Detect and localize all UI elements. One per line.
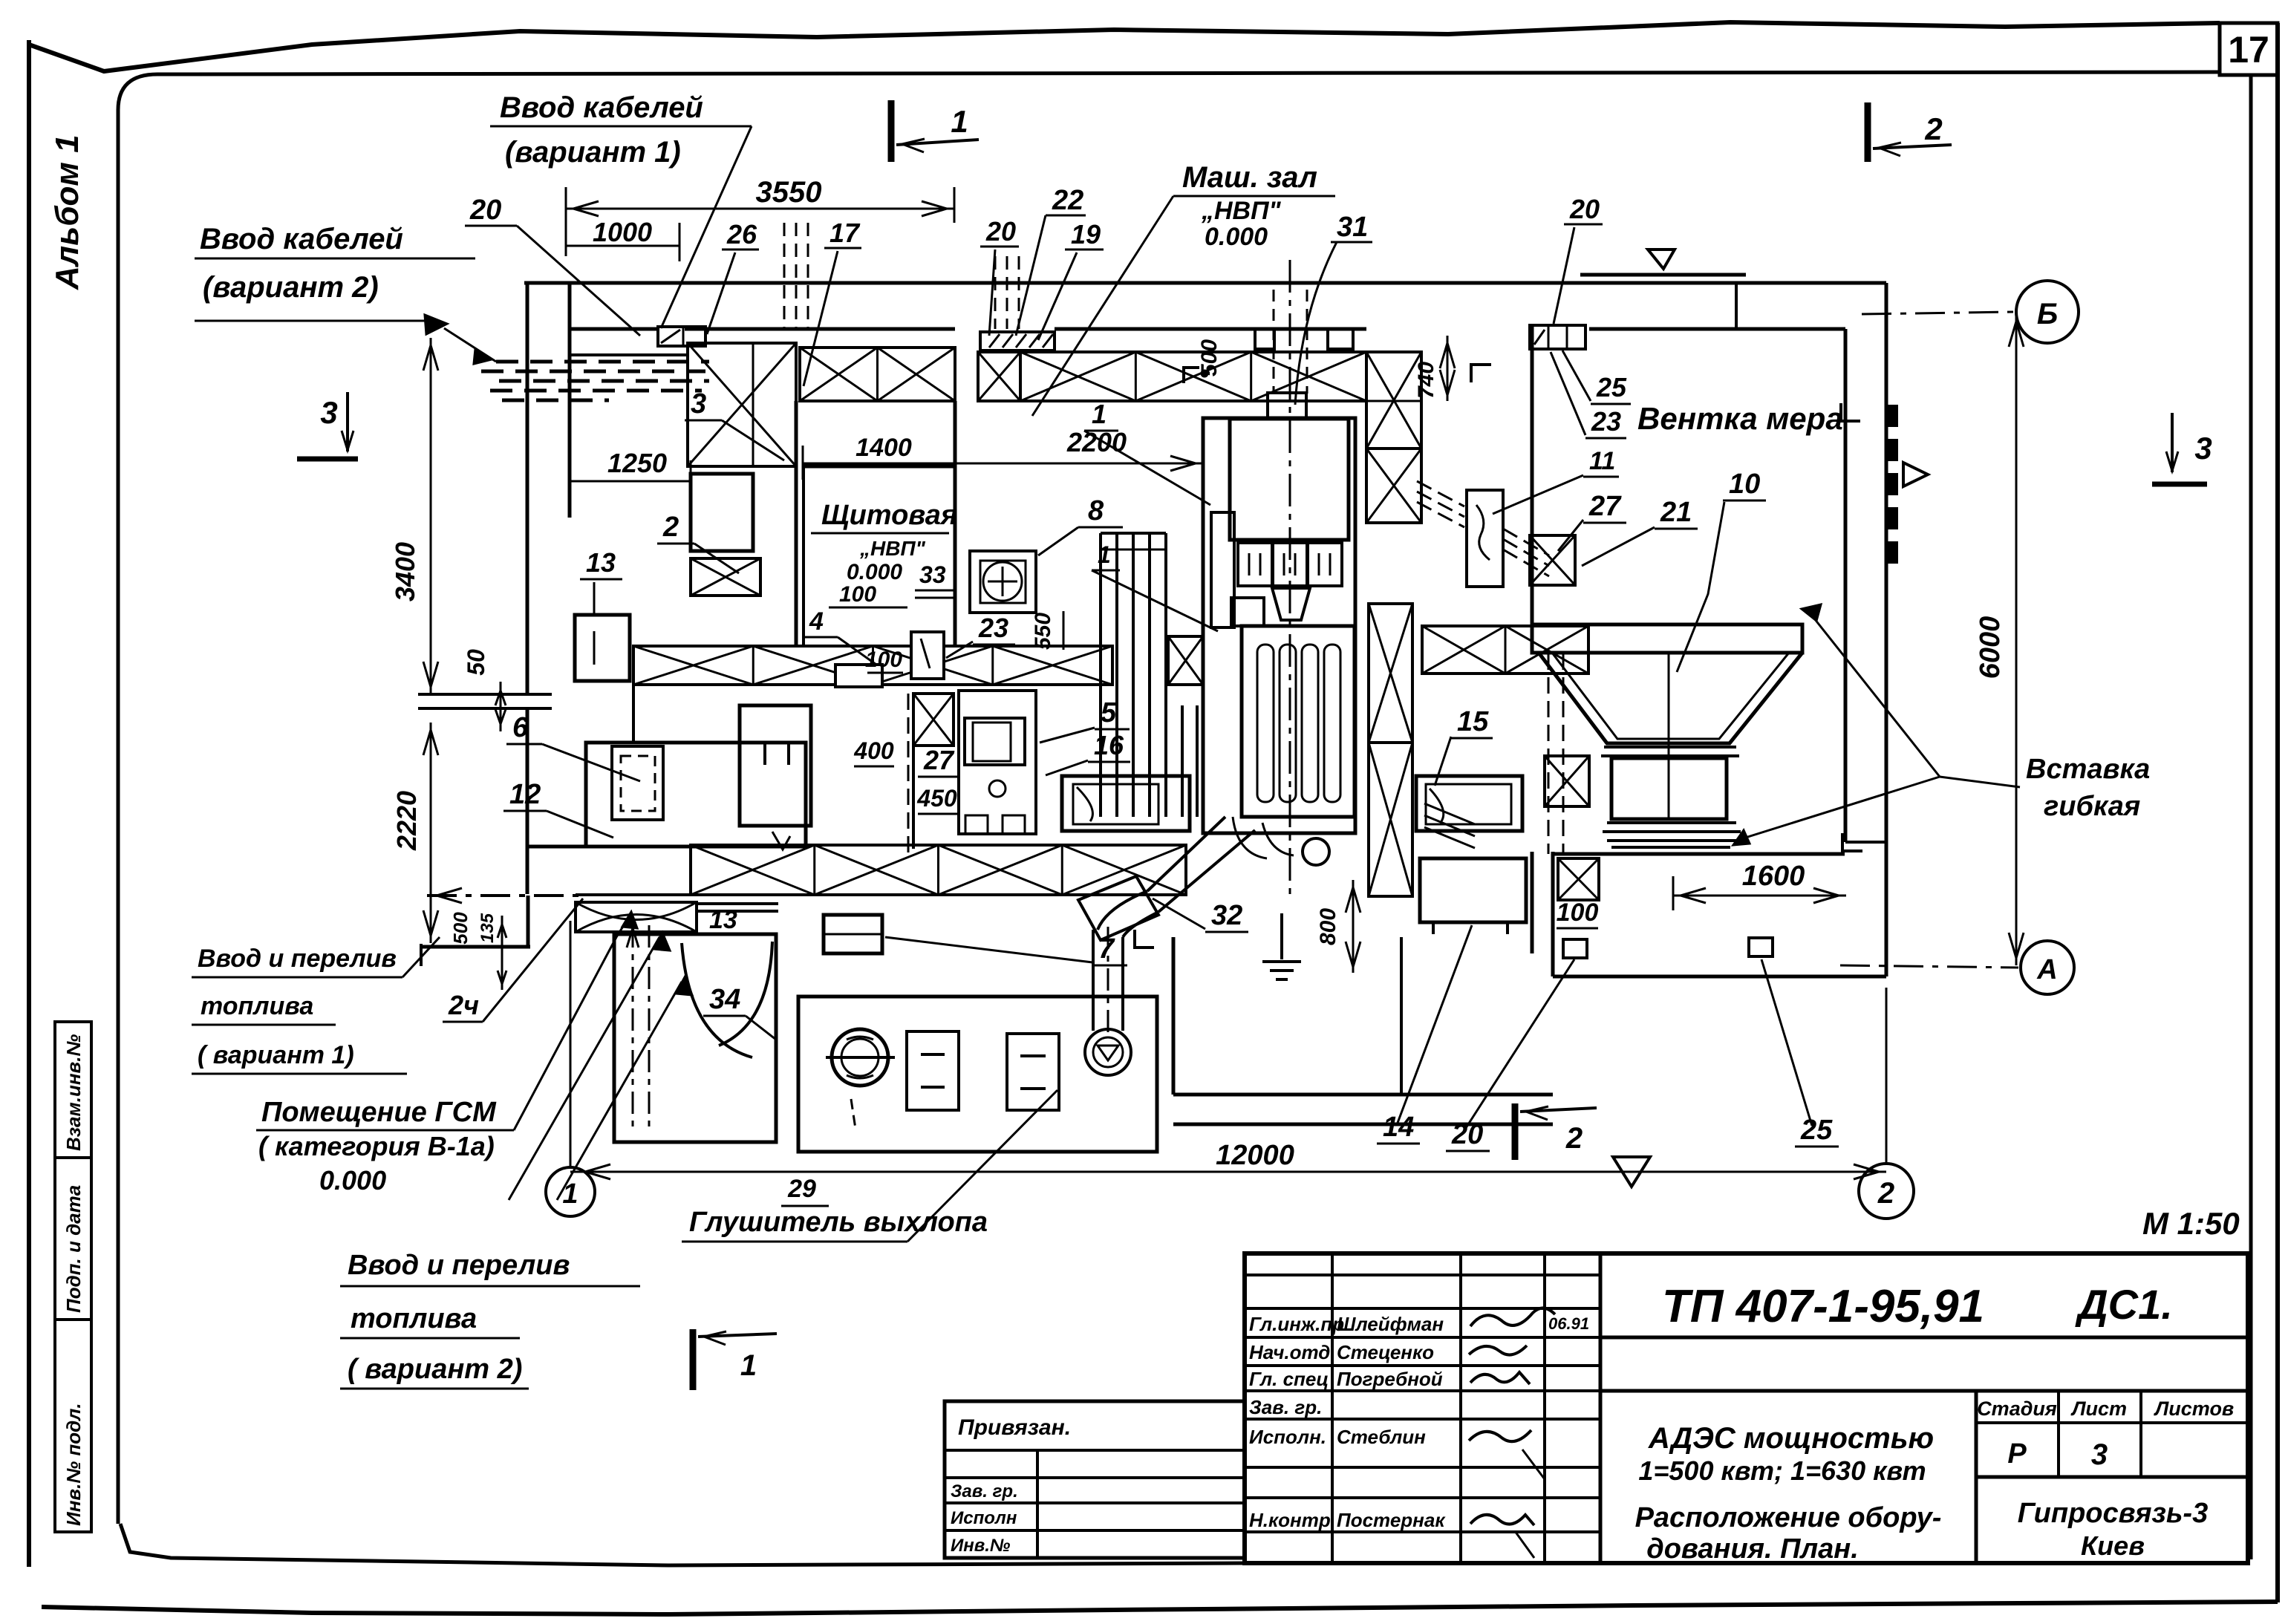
svg-text:21: 21 xyxy=(1660,497,1692,528)
inner frame bottom xyxy=(120,1524,1245,1565)
dim 740 xyxy=(1447,336,1449,401)
GSM room walls xyxy=(614,934,776,1142)
solid line above cable dashes xyxy=(570,353,689,356)
svg-text:10: 10 xyxy=(1729,469,1760,500)
bottom wall hatched strip of left building xyxy=(691,845,1186,895)
svg-text:топлива: топлива xyxy=(351,1303,477,1334)
right inner wall xyxy=(1844,329,1848,842)
foundation slab under machine xyxy=(1172,937,1176,1095)
extra corridor cell left of machine xyxy=(1168,636,1203,685)
svg-text:500: 500 xyxy=(449,912,472,945)
triangle marks xyxy=(1903,463,1928,486)
svg-text:800: 800 xyxy=(1316,908,1340,945)
muffler pump circle xyxy=(832,1029,888,1086)
svg-text:( вариант 2): ( вариант 2) xyxy=(348,1354,522,1385)
svg-text:8: 8 xyxy=(1088,495,1104,526)
small boxes on corridor xyxy=(835,665,882,687)
outer border left vertical xyxy=(27,40,31,1567)
svg-text:дования. План.: дования. План. xyxy=(1646,1533,1859,1565)
drain circle in muffler room xyxy=(1085,1029,1131,1075)
svg-text:Вставка: Вставка xyxy=(2026,754,2150,785)
sheet number box 17 xyxy=(2220,23,2278,75)
svg-text:топлива: топлива xyxy=(201,992,313,1020)
svg-text:20: 20 xyxy=(1569,194,1600,224)
svg-text:2: 2 xyxy=(1924,111,1942,146)
svg-text:Зав. гр.: Зав. гр. xyxy=(1249,1396,1322,1418)
hatched boxes right section xyxy=(1545,756,1589,806)
machine radiator block xyxy=(1230,419,1349,540)
svg-text:0.000: 0.000 xyxy=(847,560,902,584)
svg-text:Ввод и перелив: Ввод и перелив xyxy=(198,945,397,973)
outer border right vertical xyxy=(2275,23,2280,1602)
svg-text:400: 400 xyxy=(853,737,894,764)
machine centerline xyxy=(1289,260,1291,899)
svg-text:33: 33 xyxy=(919,561,946,588)
hatched column right of mash hall (lower) xyxy=(1369,604,1412,743)
machine coupling trapezoid xyxy=(1272,588,1310,620)
svg-text:17: 17 xyxy=(2228,29,2269,71)
funnel lower rings xyxy=(1607,821,1736,824)
small box bottom right room xyxy=(1563,939,1587,958)
svg-text:Альбом 1: Альбом 1 xyxy=(49,134,85,290)
top wall hatched strip (left piece) xyxy=(800,348,955,401)
equipment box 13 xyxy=(575,615,630,681)
svg-text:17: 17 xyxy=(830,218,861,248)
svg-text:Стеценко: Стеценко xyxy=(1337,1341,1434,1363)
double line right of bowtie xyxy=(697,902,778,905)
svg-text:100: 100 xyxy=(1557,899,1599,927)
svg-text:13: 13 xyxy=(709,906,737,934)
svg-text:Расположение обору-: Расположение обору- xyxy=(1635,1502,1942,1533)
svg-text:„НВП": „НВП" xyxy=(859,537,926,560)
svg-text:Глушитель выхлопа: Глушитель выхлопа xyxy=(689,1207,988,1238)
plan top inner wall segments xyxy=(570,327,659,331)
svg-text:31: 31 xyxy=(1337,212,1368,243)
svg-text:Инв.№: Инв.№ xyxy=(951,1536,1011,1556)
svg-text:(вариант 2): (вариант 2) xyxy=(203,271,379,304)
svg-text:М 1:50: М 1:50 xyxy=(2142,1206,2240,1241)
interior wall of vvod kabeley room xyxy=(568,281,572,518)
vertical dim 2220 xyxy=(430,723,432,943)
door arc 34 xyxy=(682,943,752,1057)
svg-text:12: 12 xyxy=(509,779,541,810)
svg-text:ДС1.: ДС1. xyxy=(2075,1281,2173,1328)
signatures squiggles xyxy=(1470,1308,1555,1326)
svg-text:Гл.инж.пр: Гл.инж.пр xyxy=(1249,1313,1344,1335)
inner frame right vertical xyxy=(2249,75,2253,1559)
right outer wall xyxy=(1885,283,1888,976)
svg-text:500: 500 xyxy=(1197,339,1222,376)
svg-text:Постернак: Постернак xyxy=(1337,1509,1446,1531)
dim 1000 xyxy=(566,245,679,247)
top wall hatched strip (middle) xyxy=(978,352,1020,401)
svg-text:2: 2 xyxy=(1565,1122,1583,1155)
svg-text:15: 15 xyxy=(1457,706,1489,737)
axis circle A xyxy=(2021,941,2074,994)
svg-text:22: 22 xyxy=(1052,185,1083,216)
funnel top collar xyxy=(1532,625,1802,653)
svg-text:27: 27 xyxy=(923,745,955,775)
axis circle 1 xyxy=(546,1167,595,1216)
funnel rings xyxy=(1604,746,1736,749)
fuel riser pipes dash-dot xyxy=(632,925,634,1129)
right section top band xyxy=(1589,327,1845,331)
svg-text:гибкая: гибкая xyxy=(2044,791,2140,822)
shaft below corridor xyxy=(913,694,954,746)
engine block xyxy=(1242,626,1355,817)
title block horizontal row lines xyxy=(1245,1274,1600,1276)
box 14 xyxy=(1420,858,1526,922)
svg-text:Вентка мера: Вентка мера xyxy=(1637,401,1843,436)
misc Г bracket near ventkamera xyxy=(1841,403,1860,421)
muffler inner box 1 xyxy=(907,1031,959,1110)
wall stub under corridor xyxy=(632,685,635,743)
svg-text:6000: 6000 xyxy=(1975,616,2006,679)
tall hatched box left of shchitovaya xyxy=(688,343,796,466)
section mark 2 bottom xyxy=(1512,1103,1519,1160)
bottom wall inner/outer lines xyxy=(527,845,691,849)
svg-text:25: 25 xyxy=(1596,372,1627,402)
sleeve box small (vvod kabeley v1) xyxy=(658,327,705,346)
corridor hatched strip xyxy=(633,646,1112,685)
shchitovaya room walls xyxy=(795,401,798,645)
wall opening posts above machine xyxy=(1255,329,1274,349)
svg-text:7: 7 xyxy=(1098,933,1115,965)
svg-text:20: 20 xyxy=(985,216,1016,247)
plan top outer wall xyxy=(524,281,1886,285)
svg-text:Листов: Листов xyxy=(2154,1398,2235,1420)
svg-text:Ввод кабелей: Ввод кабелей xyxy=(500,91,703,124)
svg-text:Погребной: Погребной xyxy=(1337,1368,1443,1390)
svg-text:1=500 квт; 1=630 квт: 1=500 квт; 1=630 квт xyxy=(1638,1455,1926,1486)
outer border bottom wavy line xyxy=(42,1602,2278,1614)
svg-text:А: А xyxy=(2036,954,2057,985)
svg-text:25: 25 xyxy=(1800,1115,1833,1146)
svg-text:5: 5 xyxy=(1101,697,1117,728)
left wall of right section xyxy=(1531,325,1534,624)
elbow block xyxy=(1078,876,1158,940)
svg-text:0.000: 0.000 xyxy=(319,1165,386,1196)
svg-text:23: 23 xyxy=(978,613,1008,643)
svg-text:32: 32 xyxy=(1211,900,1242,931)
dashed pipe left of funnel xyxy=(1548,653,1550,854)
svg-text:19: 19 xyxy=(1071,219,1101,250)
vertical dim 3400 xyxy=(430,338,432,694)
svg-text:2220: 2220 xyxy=(391,791,422,851)
svg-text:11: 11 xyxy=(1589,447,1615,475)
svg-text:550: 550 xyxy=(1031,613,1055,650)
svg-text:Взам.инв.№: Взам.инв.№ xyxy=(62,1034,85,1151)
machine connector xyxy=(1268,393,1306,419)
funnel trapezoid xyxy=(1539,653,1802,743)
svg-text:АДЭС мощностью: АДЭС мощностью xyxy=(1648,1422,1934,1455)
svg-text:4: 4 xyxy=(809,607,824,636)
axis circle 2 xyxy=(1859,1164,1914,1219)
hatched box 2 xyxy=(691,558,760,596)
svg-text:12000: 12000 xyxy=(1216,1140,1294,1171)
machine left auxiliaries xyxy=(1211,512,1234,627)
ventkamera bottom / funnel room xyxy=(1551,852,1555,976)
box 7 xyxy=(824,915,882,953)
svg-text:14: 14 xyxy=(1383,1112,1414,1143)
exhaust bends to elbow xyxy=(1147,817,1225,891)
dim 6000 xyxy=(2015,314,2018,965)
funnel center line xyxy=(1668,653,1670,819)
hatched column right of mash hall (upper) xyxy=(1366,352,1421,449)
muffler room xyxy=(798,997,1157,1152)
dim 1600 xyxy=(1673,895,1846,897)
svg-text:23: 23 xyxy=(1591,406,1621,437)
fuel dash-dot line bottom left xyxy=(427,894,585,897)
svg-text:0.000: 0.000 xyxy=(1205,223,1268,251)
cable bundle dashed rows xyxy=(496,360,518,364)
svg-text:Щитовая: Щитовая xyxy=(821,500,957,531)
machine body xyxy=(1203,418,1355,833)
svg-text:06.91: 06.91 xyxy=(1548,1314,1589,1333)
svg-text:1: 1 xyxy=(1098,541,1111,568)
svg-text:1: 1 xyxy=(951,104,968,139)
funnel box xyxy=(1611,758,1727,819)
section mark 1 top xyxy=(888,100,895,162)
svg-text:Стадия: Стадия xyxy=(1977,1398,2057,1420)
dim 3550 xyxy=(566,208,954,210)
svg-text:(вариант 1): (вариант 1) xyxy=(505,136,681,169)
svg-text:3400: 3400 xyxy=(390,542,420,601)
svg-text:50: 50 xyxy=(463,649,489,676)
machine lower parts xyxy=(1303,838,1329,865)
svg-text:Гипросвязь-3: Гипросвязь-3 xyxy=(2018,1498,2208,1529)
water level platform line and symbol xyxy=(1580,273,1746,277)
svg-text:Зав. гр.: Зав. гр. xyxy=(951,1481,1018,1501)
svg-text:Р: Р xyxy=(2007,1438,2027,1470)
svg-text:3550: 3550 xyxy=(756,176,822,209)
hatched strip right section xyxy=(1422,626,1588,674)
machine mid small boxes xyxy=(1238,543,1272,586)
svg-text:Привязан.: Привязан. xyxy=(958,1415,1071,1440)
hatch ticks right of machine xyxy=(1424,803,1475,824)
svg-text:27: 27 xyxy=(1588,491,1622,522)
pipe runs machine to tank xyxy=(1417,481,1464,506)
svg-text:1: 1 xyxy=(562,1178,578,1210)
floor drain square 8 xyxy=(970,551,1036,613)
dim 12000 and 291 xyxy=(570,1171,1886,1173)
ground symbol xyxy=(1280,913,1283,959)
svg-text:Нач.отд: Нач.отд xyxy=(1249,1341,1330,1363)
dim 1400 / 2200 xyxy=(803,463,1203,465)
fuel inlet hatched bowtie xyxy=(576,902,697,932)
box 15 xyxy=(1416,776,1522,831)
svg-text:Маш. зал: Маш. зал xyxy=(1182,161,1317,194)
svg-text:( категория В-1а): ( категория В-1а) xyxy=(258,1131,495,1161)
svg-text:Шлейфман: Шлейфман xyxy=(1337,1313,1444,1335)
svg-text:Исполн: Исполн xyxy=(951,1508,1017,1528)
svg-text:Инв.№ подл.: Инв.№ подл. xyxy=(62,1403,85,1526)
left attribute strip table xyxy=(55,1022,91,1532)
svg-text:2: 2 xyxy=(1877,1177,1894,1210)
small left table (Priezzhan) xyxy=(945,1401,1245,1558)
fuel tank device 11 xyxy=(1467,490,1503,587)
small boxes on ventkamera wall (20) xyxy=(1530,325,1585,349)
gamma bracket right xyxy=(1471,365,1491,382)
exhaust pipe cluster xyxy=(1099,533,1102,817)
device cluster 5/16 xyxy=(959,691,1036,834)
svg-text:20: 20 xyxy=(1451,1119,1483,1150)
svg-text:Киев: Киев xyxy=(2081,1530,2145,1561)
svg-text:Подп. и дата: Подп. и дата xyxy=(62,1185,85,1313)
svg-text:450: 450 xyxy=(916,785,957,812)
equipment box 3 xyxy=(691,474,753,551)
title block big cell line under TP xyxy=(1600,1336,2248,1340)
room 6/12 big rect xyxy=(586,743,806,847)
equipment rect with ticks (V) xyxy=(740,705,811,826)
svg-text:Б: Б xyxy=(2037,298,2058,330)
dim 1250 xyxy=(570,480,691,483)
svg-text:Ввод и перелив: Ввод и перелив xyxy=(348,1250,570,1281)
svg-text:13: 13 xyxy=(586,547,616,578)
svg-text:Стеблин: Стеблин xyxy=(1337,1426,1426,1448)
svg-text:Ввод кабелей: Ввод кабелей xyxy=(200,223,403,255)
svg-text:1: 1 xyxy=(740,1349,757,1382)
svg-text:20: 20 xyxy=(469,195,501,226)
sleeves box 22/19 on wall xyxy=(980,332,1055,350)
svg-text:ТП 407-1-95,91: ТП 407-1-95,91 xyxy=(1662,1281,1984,1332)
flexible insert black dashes xyxy=(1888,405,1898,427)
box 16 xyxy=(1062,776,1190,831)
svg-text:( вариант 1): ( вариант 1) xyxy=(198,1041,354,1069)
svg-text:Лист: Лист xyxy=(2070,1398,2127,1420)
outer border top wavy line xyxy=(29,22,2220,71)
axis circle B xyxy=(2016,281,2079,343)
svg-text:1400: 1400 xyxy=(855,434,912,462)
svg-text:Гл. спец: Гл. спец xyxy=(1249,1368,1329,1390)
left wall step lines (50 gap) xyxy=(418,693,552,696)
svg-text:3: 3 xyxy=(320,395,337,430)
cable risers dashed above wall xyxy=(783,223,786,329)
title block outer xyxy=(1245,1253,2248,1563)
svg-text:135: 135 xyxy=(478,913,498,943)
svg-text:1000: 1000 xyxy=(593,217,652,247)
svg-text:29: 29 xyxy=(787,1175,816,1203)
svg-text:3: 3 xyxy=(691,388,706,420)
svg-text:„НВП": „НВП" xyxy=(1201,197,1282,225)
svg-text:100: 100 xyxy=(839,582,876,607)
muffler inner box 2 xyxy=(1007,1034,1059,1110)
vertical exhaust drop pipe xyxy=(1092,930,1095,1031)
title block vertical dividers (left part) xyxy=(1331,1253,1334,1563)
svg-text:3: 3 xyxy=(2194,431,2212,466)
svg-text:Помещение ГСМ: Помещение ГСМ xyxy=(261,1097,497,1128)
dashed cabinet 24 inside xyxy=(612,746,663,820)
stadia/list header box xyxy=(1975,1391,1978,1563)
svg-text:1250: 1250 xyxy=(607,448,667,478)
opening mark G xyxy=(1184,368,1199,383)
svg-text:Н.контр: Н.контр xyxy=(1249,1509,1331,1531)
left outer wall xyxy=(526,281,529,694)
svg-text:34: 34 xyxy=(709,984,740,1015)
svg-text:3: 3 xyxy=(2091,1438,2108,1471)
left bottom step xyxy=(420,945,530,949)
svg-text:Исполн.: Исполн. xyxy=(1249,1426,1326,1448)
svg-text:2: 2 xyxy=(662,512,679,543)
svg-text:16: 16 xyxy=(1094,730,1124,760)
svg-text:2ч: 2ч xyxy=(448,990,479,1020)
svg-text:6: 6 xyxy=(512,712,529,743)
svg-text:1600: 1600 xyxy=(1742,861,1805,892)
svg-text:1: 1 xyxy=(1092,399,1106,429)
section mark 3 right xyxy=(2171,413,2174,472)
section mark 2 top xyxy=(1865,102,1871,162)
dim 800 xyxy=(1352,880,1355,973)
svg-text:740: 740 xyxy=(1414,362,1438,399)
section mark 1 bottom xyxy=(690,1329,697,1390)
svg-text:26: 26 xyxy=(726,219,757,250)
